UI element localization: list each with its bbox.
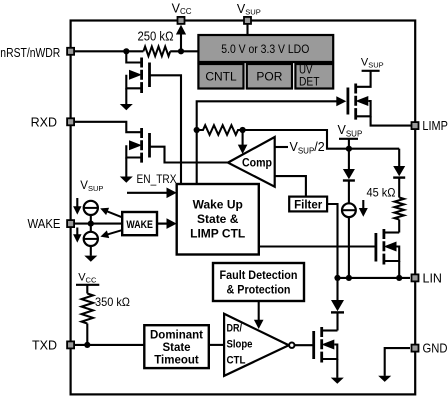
op-amp U1 comparator Comp <box>228 137 275 187</box>
pin V_SUP <box>244 17 251 24</box>
resistor R1 250 kOhm <box>138 30 174 57</box>
svg-text:LIN: LIN <box>423 271 442 285</box>
ground (Q1 source) <box>120 104 133 110</box>
current source I1 <box>342 203 356 278</box>
transistor Q5 (LIN driver) <box>314 327 338 378</box>
block Dominant State Timeout <box>144 325 209 368</box>
node junction on nRST line (Q1 drain tap) <box>123 48 129 54</box>
wire WAKE ctl arrow to I2 <box>100 208 122 218</box>
ground (Q2 source) <box>120 177 133 183</box>
node junction WAKE <box>88 221 94 227</box>
current source I3 (wake pull-down) <box>84 224 98 256</box>
svg-text:& Protection: & Protection <box>227 285 291 297</box>
svg-text:TXD: TXD <box>32 338 57 352</box>
wire V_SUP pin to LDO <box>246 24 248 35</box>
power V_SUP terminal (LIMP) <box>361 57 384 71</box>
svg-text:Timeout: Timeout <box>154 354 199 366</box>
wire Wake-Up block to Q4 gate <box>259 245 376 247</box>
current source I2 (wake pull-up) <box>84 201 98 224</box>
pin nRST/nWDR <box>0 46 74 60</box>
node junction at comparator arrow <box>240 127 246 133</box>
svg-text:EN_TRX: EN_TRX <box>137 174 177 186</box>
wire to LIN sense network <box>243 130 400 149</box>
transistor Q2 (RXD output) <box>126 128 149 177</box>
power V_CC terminal (TXD pull-up) <box>76 272 99 294</box>
ground (wake pull-down) <box>84 256 97 262</box>
svg-text:350 kΩ: 350 kΩ <box>95 295 130 309</box>
pin LIMP <box>412 119 448 133</box>
wire Dominant box to slope ctl <box>209 344 224 346</box>
block CNTL <box>198 64 243 89</box>
pin V_CC <box>178 17 185 24</box>
power V_CC label top <box>172 2 192 17</box>
diode D2 <box>393 149 405 198</box>
wire current direction arrow <box>359 200 368 217</box>
svg-text:LIMP CTL: LIMP CTL <box>190 227 245 241</box>
transistor Q3 (LIMP driver) <box>348 71 411 126</box>
pin WAKE <box>28 217 75 231</box>
wire EN_TRX arrow into Wake-Up block <box>127 188 177 199</box>
wire V_CC arrow up <box>176 25 186 52</box>
node junction TXD pull-up <box>84 342 90 348</box>
wire LIN node row <box>338 277 411 279</box>
block Fault Detection & Protection <box>213 263 304 301</box>
amplifier DR/Slope CTL <box>224 314 294 376</box>
block Filter <box>289 197 327 212</box>
block WAKE <box>122 212 157 235</box>
resistor R3 45 kOhm <box>394 198 404 233</box>
svg-text:nRST/nWDR: nRST/nWDR <box>0 46 60 60</box>
svg-text:CTL: CTL <box>227 355 246 367</box>
pin RXD <box>31 115 75 129</box>
svg-text:State: State <box>162 342 190 354</box>
svg-text:Slope: Slope <box>227 339 253 351</box>
value label 45 kOhm <box>367 186 396 200</box>
svg-text:State &: State & <box>197 212 239 226</box>
diode D3 (driver blocking) <box>331 278 344 331</box>
svg-text:250 kΩ: 250 kΩ <box>138 30 174 44</box>
svg-text:POR: POR <box>256 70 282 84</box>
wire WAKE box to Wake-Up block arrow <box>157 218 177 229</box>
svg-text:LIMP: LIMP <box>422 119 448 133</box>
svg-text:WAKE: WAKE <box>126 219 153 231</box>
wire comparator to Filter <box>275 176 306 196</box>
wire slope ctl to Q5 gate <box>295 344 314 346</box>
pin GND <box>412 342 448 356</box>
block Wake Up State & LIMP CTL <box>177 184 259 255</box>
diode D1 <box>343 149 355 204</box>
wire Q2 gate from comparator <box>150 147 228 163</box>
pin TXD <box>32 338 74 352</box>
node junction V_SUP branch <box>346 146 352 152</box>
node junction V_CC tap <box>178 48 184 54</box>
svg-text:5.0 V or 3.3 V LDO: 5.0 V or 3.3 V LDO <box>221 42 309 56</box>
wire nRST row <box>75 50 198 52</box>
wire WAKE ctl arrow to I3 <box>100 230 121 238</box>
wire Fault block to driver arrow <box>254 301 264 329</box>
block UV DET <box>295 63 333 89</box>
svg-text:45 kΩ: 45 kΩ <box>367 186 396 200</box>
svg-text:GND: GND <box>423 342 448 356</box>
power V_SUP label top <box>237 2 261 17</box>
block POR <box>247 64 292 89</box>
node junction comparator input <box>194 127 200 133</box>
svg-text:Filter: Filter <box>294 199 323 211</box>
wire Filter to LIN node <box>327 204 337 278</box>
svg-text:DR/: DR/ <box>227 323 243 335</box>
transistor Q4 (LIN pull-up switch) <box>376 229 399 278</box>
wire WAKE row <box>75 223 122 225</box>
node junction LIN-pullup <box>396 275 402 281</box>
svg-text:CNTL: CNTL <box>205 70 237 84</box>
resistor R4 350 kOhm <box>82 294 131 345</box>
net V_SUP/2 reference <box>275 140 325 156</box>
wire GND pin to ground <box>385 348 410 376</box>
wire Q1 gate to Wake-Up block <box>150 75 182 184</box>
wire current arrow I3 <box>73 228 81 243</box>
svg-text:RXD: RXD <box>31 115 57 129</box>
wire RXD row <box>75 122 141 132</box>
net EN_TRX label <box>137 174 177 186</box>
wire current arrow I2 <box>73 198 81 215</box>
outer border frame <box>71 21 416 395</box>
pin LIN <box>412 271 442 285</box>
svg-text:Wake Up: Wake Up <box>193 198 243 212</box>
svg-text:Fault Detection: Fault Detection <box>220 270 298 282</box>
ground (GND pin) <box>378 376 391 382</box>
node junction LIN-filter <box>334 275 340 281</box>
svg-text:Comp: Comp <box>242 158 272 170</box>
wire LIMP gate drive line <box>197 96 347 184</box>
power V_SUP label (WAKE bias) <box>80 180 103 193</box>
svg-text:Dominant: Dominant <box>150 330 203 342</box>
node junction LIN-current source <box>346 275 352 281</box>
resistor R2 (comparator input) <box>197 125 243 135</box>
power V_SUP terminal (LIN pull-up) <box>338 123 363 149</box>
transistor Q1 (nRST output) <box>126 51 149 104</box>
svg-text:WAKE: WAKE <box>28 217 61 231</box>
block LDO 5.0V/3.3V <box>198 35 333 62</box>
wire TXD row <box>75 344 144 346</box>
ground (Q5 source) <box>331 378 344 384</box>
wire comparator input arrow <box>238 130 248 154</box>
svg-text:DET: DET <box>299 75 320 89</box>
